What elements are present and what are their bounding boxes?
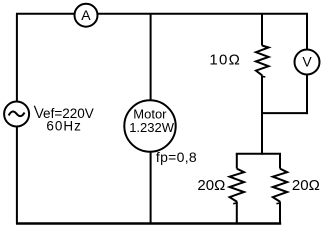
wire parallel bar [236,153,281,155]
wire left 20ohm top stub [236,154,238,169]
svg-text:20Ω: 20Ω [197,177,225,194]
wire right 20ohm bottom stub [279,202,281,224]
resistor R3 20ohm right [273,169,287,202]
svg-text:fp=0,8: fp=0,8 [156,149,197,165]
wire right 20ohm top stub [279,154,281,169]
AC source V1 circle [4,102,29,127]
junction tick left 20ohm bottom [233,202,237,205]
voltmeter V1 circle [295,50,320,75]
wire bottom [16,222,281,225]
ammeter A1 circle [75,4,98,27]
svg-text:20Ω: 20Ω [292,177,320,194]
junction tick right 20ohm bottom [276,202,280,205]
motor M1 circle [124,100,175,151]
svg-text:A: A [81,7,91,23]
wire left [16,14,18,224]
svg-text:10Ω: 10Ω [209,52,241,69]
wire top [16,13,308,15]
svg-text:1.232W: 1.232W [129,120,175,135]
wire connector resistor to voltmeter [262,112,308,114]
svg-text:60Hz: 60Hz [46,119,82,134]
resistor R1 10ohm [256,46,269,76]
svg-text:V: V [302,53,312,69]
wire left 20ohm bottom stub [236,202,238,224]
resistor R2 20ohm left [230,169,244,202]
source tick mark [34,106,35,109]
wire voltmeter top [306,14,308,51]
wire voltmeter bottom [306,74,308,114]
wire 10ohm branch top [261,14,263,46]
AC source sine symbol [9,112,25,117]
wire 10ohm branch bottom [261,76,263,155]
wire motor branch [150,14,152,224]
junction tick 10ohm bottom [262,75,265,78]
